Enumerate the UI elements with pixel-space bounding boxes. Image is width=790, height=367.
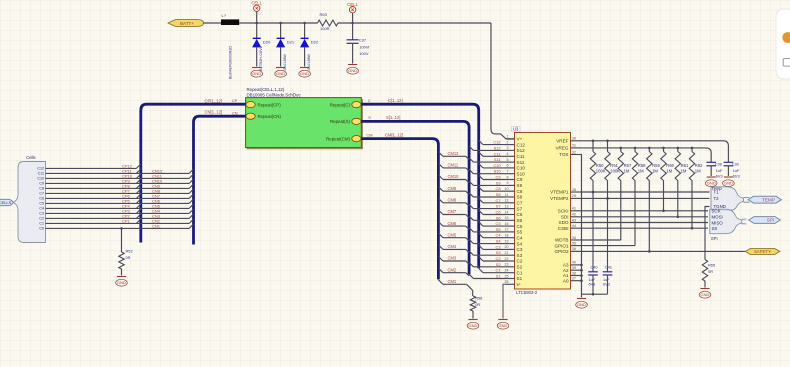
wire net CM7 <box>443 214 466 216</box>
wire net C1 to pin <box>483 272 506 274</box>
svg-text:Repeat(C): Repeat(C) <box>330 102 351 107</box>
bus S[1..12] horizontal+vertical <box>361 121 469 274</box>
svg-text:Repeat(CELL,1,12): Repeat(CELL,1,12) <box>247 87 285 92</box>
junction R50 bottom <box>592 191 595 194</box>
bus entry C6 on C bus <box>479 210 483 214</box>
wire net C6 to pin <box>483 214 506 216</box>
svg-text:6V3: 6V3 <box>733 175 740 179</box>
wire cell row C3 <box>46 212 190 214</box>
wire cell row C12 <box>46 167 137 169</box>
bus entry CM2 on S bus <box>466 273 469 276</box>
pin 32 (TOS) of U3 <box>559 150 580 157</box>
wire R63 to corner <box>338 22 491 24</box>
svg-text:S7: S7 <box>517 206 523 211</box>
resistor R63 100R <box>318 12 339 31</box>
wire ground stub <box>581 294 583 297</box>
op-amp U3 LTC6803-2 body <box>512 127 571 295</box>
svg-text:S2: S2 <box>517 265 523 270</box>
svg-text:CN1: CN1 <box>152 223 161 228</box>
svg-text:D21: D21 <box>287 40 295 45</box>
bus entry CP2 <box>136 214 140 218</box>
svg-text:35: 35 <box>572 241 576 245</box>
ground below D20 <box>251 68 263 78</box>
pin 25 (S1) of U3 <box>505 274 523 281</box>
svg-text:21: 21 <box>505 251 509 255</box>
wire net CM4 <box>443 248 466 250</box>
svg-text:C8: C8 <box>496 186 501 191</box>
pin 20 (C3) of U3 <box>505 245 523 252</box>
wire VREF rail <box>581 141 729 163</box>
svg-text:18: 18 <box>505 234 509 238</box>
svg-text:9: 9 <box>507 181 509 185</box>
bus entry CM7 on S bus <box>466 215 469 218</box>
ground below D22 <box>299 68 311 78</box>
svg-text:CP: CP <box>232 98 238 103</box>
bus entry CN10 <box>189 179 193 183</box>
capacitor C37 100nf 100V <box>347 23 370 64</box>
resistor R57 1M <box>618 148 632 240</box>
junction A3 on vertical <box>580 264 583 267</box>
wire cell row C5 <box>46 202 190 204</box>
wire cell row C8 <box>46 187 190 189</box>
wire V- to ground <box>503 284 506 318</box>
wire SDO to MISO <box>581 222 709 224</box>
wire R50 column to C40 <box>592 192 594 272</box>
svg-text:GND: GND <box>707 181 716 186</box>
svg-text:10: 10 <box>505 187 509 191</box>
wire SDI to MOSI <box>581 216 709 218</box>
wire VREG rail <box>581 148 712 162</box>
svg-text:C40: C40 <box>591 266 598 270</box>
wire cell row C2 <box>46 217 190 219</box>
svg-text:C1: C1 <box>517 270 523 275</box>
svg-text:S8: S8 <box>517 195 523 200</box>
junction A2 on vertical <box>580 269 583 272</box>
svg-text:1M: 1M <box>681 169 687 174</box>
svg-text:C11: C11 <box>494 151 501 156</box>
svg-text:38: 38 <box>572 271 576 275</box>
wire cell row C6 <box>46 197 190 199</box>
bus exit CM11 on CM bus <box>438 163 443 168</box>
svg-text:100V: 100V <box>359 51 369 56</box>
pin 16 (C5) of U3 <box>505 222 523 229</box>
junction R60 bottom <box>662 210 665 213</box>
svg-text:R50: R50 <box>596 163 604 168</box>
svg-text:S12: S12 <box>494 145 501 150</box>
svg-text:C5: C5 <box>496 221 501 226</box>
wire cell row C9 <box>46 182 190 184</box>
svg-text:26: 26 <box>505 280 509 284</box>
pin 34 (WDTB) of U3 <box>555 236 581 243</box>
svg-text:GND: GND <box>469 323 478 328</box>
svg-text:30: 30 <box>572 137 576 141</box>
pin 24 (C1) of U3 <box>505 269 523 276</box>
svg-text:CM3: CM3 <box>448 256 457 261</box>
junction VREG/resistor <box>648 147 651 150</box>
svg-text:Repeat(CP): Repeat(CP) <box>258 102 282 107</box>
bus exit CM6 on CM bus <box>438 222 443 227</box>
junction T2/R51 <box>606 197 609 200</box>
svg-text:MOSI: MOSI <box>712 215 723 220</box>
bus exit CM5 on CM bus <box>438 233 443 238</box>
svg-text:C10: C10 <box>37 177 44 181</box>
pin 43 (SDO) of U3 <box>559 218 581 225</box>
svg-text:C4: C4 <box>517 235 523 240</box>
svg-text:R62: R62 <box>695 163 703 168</box>
svg-text:Repeat(CM): Repeat(CM) <box>326 136 350 141</box>
svg-text:S11: S11 <box>517 160 525 165</box>
svg-text:CM1: CM1 <box>448 279 457 284</box>
junction node D21 <box>279 22 282 25</box>
wire BATT+ to L <box>204 22 222 24</box>
svg-text:6V3: 6V3 <box>603 283 610 287</box>
svg-text:CM: CM <box>366 132 372 137</box>
svg-text:C41: C41 <box>605 266 612 270</box>
bus entry S2 on S bus <box>469 263 473 267</box>
svg-text:12: 12 <box>505 199 509 203</box>
pin 13 (S7) of U3 <box>505 204 523 211</box>
bus entry CN6 <box>189 199 193 203</box>
svg-text:1uF: 1uF <box>603 278 610 282</box>
wire net C4 to pin <box>483 237 506 239</box>
svg-text:23: 23 <box>505 263 509 267</box>
svg-text:SPI: SPI <box>711 236 718 241</box>
svg-text:S10: S10 <box>494 169 502 174</box>
svg-text:S2: S2 <box>496 262 501 267</box>
bus entry C9 on C bus <box>479 175 483 179</box>
bus entry CP4 <box>136 204 140 208</box>
svg-text:MISO: MISO <box>712 220 724 225</box>
svg-text:SDI: SDI <box>561 215 569 220</box>
svg-text:CELL: CELL <box>347 2 358 7</box>
svg-text:Repeat(CN): Repeat(CN) <box>258 114 282 119</box>
bus entry S11 on S bus <box>469 158 473 162</box>
svg-text:A3: A3 <box>563 263 569 268</box>
bus CM[1..12] horizontal+vertical <box>361 139 438 280</box>
bus entry CN4 <box>189 209 193 213</box>
svg-text:C11: C11 <box>517 154 526 159</box>
svg-text:C7: C7 <box>496 198 501 203</box>
bus exit CM8 on CM bus <box>438 198 443 203</box>
svg-text:WDTB: WDTB <box>555 238 569 243</box>
wire net S4 to pin <box>473 243 505 245</box>
wire net C7 to pin <box>483 202 506 204</box>
bus entry CM9 on S bus <box>466 191 469 194</box>
svg-text:17: 17 <box>505 228 509 232</box>
diode D20 BZT52H-C6V2 <box>252 23 271 71</box>
svg-text:C10: C10 <box>493 163 501 168</box>
svg-text:100R: 100R <box>320 26 330 31</box>
bus entry C4 on C bus <box>479 233 483 237</box>
svg-text:C3: C3 <box>496 244 501 249</box>
junction node CELL2/C37 <box>351 22 354 25</box>
svg-text:CM10: CM10 <box>448 174 460 179</box>
pin 12 (C7) of U3 <box>505 199 523 206</box>
resistor R52 0R <box>119 228 133 275</box>
svg-text:1M: 1M <box>695 169 701 174</box>
svg-text:S6: S6 <box>517 218 523 223</box>
wire net S8 to pin <box>473 196 505 198</box>
wire V+ feed from rail to U3 pin 1 <box>491 23 515 139</box>
svg-text:U3: U3 <box>513 127 519 132</box>
junction VREG/resistor <box>634 147 637 150</box>
bus entry CM12 on S bus <box>466 156 469 159</box>
wire net C9 to pin <box>483 179 506 181</box>
wire GPIO2 to SAFETY <box>581 250 746 252</box>
junction VREG/resistor <box>677 147 680 150</box>
svg-text:S8: S8 <box>496 192 501 197</box>
svg-text:VTEMP1: VTEMP1 <box>550 190 569 195</box>
svg-text:C2: C2 <box>496 256 501 261</box>
wire net CM1 <box>438 280 472 296</box>
bus entry S12 on S bus <box>469 146 473 150</box>
pin 40 (A3) of U3 <box>563 261 581 268</box>
junction R59 bottom <box>648 250 651 253</box>
svg-text:100K: 100K <box>596 169 606 174</box>
svg-text:C6: C6 <box>496 210 501 215</box>
svg-text:C9: C9 <box>39 182 44 186</box>
svg-text:S9: S9 <box>517 183 523 188</box>
svg-text:5: 5 <box>507 158 509 162</box>
wire net C3 to pin <box>483 248 506 250</box>
svg-text:CM9: CM9 <box>448 186 457 191</box>
pin 2 (C12) of U3 <box>506 140 526 147</box>
svg-text:CN: CN <box>232 110 238 115</box>
svg-text:CM8: CM8 <box>448 198 457 203</box>
svg-text:34: 34 <box>572 236 576 240</box>
junction node D22 <box>303 22 306 25</box>
bus entry CN1 <box>189 224 193 228</box>
wire VTEMP1 to T1 <box>581 191 710 193</box>
bus entry CP8 <box>136 184 140 188</box>
svg-text:CSBI: CSBI <box>558 226 569 231</box>
svg-text:C4: C4 <box>496 233 502 238</box>
svg-text:C8: C8 <box>517 189 523 194</box>
wire net CM11 <box>443 167 466 169</box>
svg-text:GND: GND <box>348 68 357 73</box>
svg-text:S4: S4 <box>517 241 523 246</box>
junction VREG/resistor <box>620 147 623 150</box>
bus CN[1..12] horizontal+vertical <box>194 116 246 244</box>
pin 9 (S9) of U3 <box>506 181 523 188</box>
svg-text:13: 13 <box>505 204 509 208</box>
svg-text:S7: S7 <box>496 204 501 209</box>
svg-text:6V3: 6V3 <box>589 283 596 287</box>
svg-text:C12: C12 <box>37 167 44 171</box>
svg-text:CP[1..12]: CP[1..12] <box>205 98 222 103</box>
svg-text:22: 22 <box>505 257 509 261</box>
svg-text:SS: SS <box>712 226 718 231</box>
bus entry CN8 <box>189 189 193 193</box>
svg-text:24: 24 <box>505 269 509 273</box>
svg-text:1M: 1M <box>652 169 658 174</box>
svg-text:S4: S4 <box>496 239 502 244</box>
pin 5 (S11) of U3 <box>506 158 525 165</box>
bus entry C11 on C bus <box>479 152 483 156</box>
harness connector SPI <box>710 208 747 241</box>
svg-text:28: 28 <box>572 188 576 192</box>
wire bottom ground rail <box>582 293 608 295</box>
svg-text:C5: C5 <box>39 202 44 206</box>
wire TOS/A-pins vertical to ground rail <box>581 155 582 295</box>
junction A0 on vertical <box>580 279 583 282</box>
svg-text:0R: 0R <box>475 302 480 307</box>
bus entry CM6 on S bus <box>466 226 469 229</box>
wire net CM9 <box>443 190 466 192</box>
junction A1 on vertical <box>580 274 583 277</box>
bus CP[1..12] horizontal+vertical <box>141 104 246 242</box>
svg-text:S12: S12 <box>517 148 526 153</box>
bus entry CM4 on S bus <box>466 249 469 252</box>
svg-text:GND: GND <box>724 181 733 186</box>
svg-text:S[1..12]: S[1..12] <box>386 115 400 120</box>
svg-text:C11: C11 <box>38 172 44 176</box>
svg-text:2: 2 <box>507 140 509 144</box>
junction VREG/resistor <box>662 147 665 150</box>
svg-text:C2: C2 <box>517 259 523 264</box>
svg-text:S11: S11 <box>494 157 501 162</box>
svg-text:S3: S3 <box>517 253 523 258</box>
power symbol CELL (left) <box>251 1 262 23</box>
bus entry CP1 <box>136 219 140 223</box>
pin 21 (S3) of U3 <box>505 251 523 258</box>
bus entry S9 on S bus <box>469 181 473 185</box>
bus entry CM11 on S bus <box>466 168 469 171</box>
junction VREF/R51 <box>606 140 609 143</box>
harness connector Temp <box>711 186 750 210</box>
pin 35 (GPIO1) of U3 <box>554 241 580 248</box>
wire net S11 to pin <box>473 161 505 163</box>
svg-text:GPIO1: GPIO1 <box>554 243 568 248</box>
svg-text:20: 20 <box>505 245 509 249</box>
svg-text:C2: C2 <box>39 217 44 221</box>
svg-text:V-: V- <box>517 282 522 287</box>
resistor R50 100K <box>590 141 605 192</box>
svg-text:D22: D22 <box>311 40 319 45</box>
svg-text:1M: 1M <box>666 169 672 174</box>
svg-text:CM12: CM12 <box>448 151 460 156</box>
svg-text:8: 8 <box>507 175 509 179</box>
pin 31 (VREG) of U3 <box>555 144 580 151</box>
sheet entry Repeat(CM) <box>326 136 361 142</box>
svg-text:31: 31 <box>572 144 576 148</box>
bus entry CP7 <box>136 189 140 193</box>
svg-text:SDO: SDO <box>559 220 569 225</box>
svg-text:S6: S6 <box>496 215 501 220</box>
wire net CM2 <box>443 272 466 274</box>
svg-text:R59: R59 <box>652 163 660 168</box>
bus entry C8 on C bus <box>479 187 483 191</box>
bus exit CM2 on CM bus <box>438 268 443 273</box>
svg-text:T1: T1 <box>714 190 720 195</box>
svg-text:GPIO2: GPIO2 <box>554 249 568 254</box>
bus entry CM8 on S bus <box>466 203 469 206</box>
diode D21 1N4148W <box>276 23 295 71</box>
pin 37 (A0) of U3 <box>563 277 581 284</box>
pin 19 (S4) of U3 <box>505 239 523 246</box>
svg-text:1M: 1M <box>624 169 630 174</box>
svg-text:D20: D20 <box>263 40 271 45</box>
port SAFETY <box>745 249 780 255</box>
ui overlay panel <box>776 9 790 79</box>
harness port TEMP <box>748 196 781 203</box>
resistor R58 1M <box>632 148 646 246</box>
wire net C2 to pin <box>483 260 506 262</box>
svg-text:CELL: CELL <box>251 1 262 6</box>
svg-text:1M: 1M <box>638 169 644 174</box>
pin 26 (V-) of U3 <box>505 280 522 287</box>
junction node R52 tap <box>120 227 123 230</box>
diode D22 1N4148W <box>300 23 319 71</box>
wire cell row C10 <box>46 177 190 179</box>
resistor R61 1M <box>675 148 689 217</box>
bus entry CP6 <box>136 194 140 198</box>
bus exit CM9 on CM bus <box>438 187 443 192</box>
svg-text:GND: GND <box>276 71 285 76</box>
ground below C37 <box>347 65 359 75</box>
capacitor C38 1uF 6V3 <box>706 162 723 178</box>
wire CSBI to SS <box>581 227 709 229</box>
svg-text:TEMP: TEMP <box>762 197 775 202</box>
pin 1 (V+) of U3 <box>506 135 523 142</box>
bus entry CM10 on S bus <box>466 180 469 183</box>
svg-text:R52: R52 <box>126 249 133 254</box>
svg-text:C4: C4 <box>39 207 44 211</box>
wire cell row C7 <box>46 192 190 194</box>
bus entry C1 on C bus <box>479 268 483 272</box>
pin 15 (S6) of U3 <box>505 216 523 223</box>
wire cell row C1 <box>46 222 190 224</box>
junction VREF/R50 <box>592 140 595 143</box>
svg-text:42: 42 <box>572 213 576 217</box>
svg-text:SAFETY: SAFETY <box>754 249 771 254</box>
svg-text:VTEMP2: VTEMP2 <box>550 196 569 201</box>
svg-text:C3: C3 <box>39 212 44 216</box>
svg-text:A0: A0 <box>563 278 569 283</box>
junction T1/R50 <box>592 191 595 194</box>
wire net C10 to pin <box>483 167 506 169</box>
wire R51 column to C41 <box>607 198 609 271</box>
bus entry S1 on S bus <box>469 274 473 278</box>
svg-text:SPI: SPI <box>767 218 774 223</box>
pin 18 (C4) of U3 <box>505 234 523 241</box>
svg-text:C7: C7 <box>517 201 523 206</box>
pin 17 (S5) of U3 <box>505 228 523 235</box>
resistor R65 0R <box>702 260 715 288</box>
bus entry CN11 <box>189 174 193 178</box>
svg-text:S3: S3 <box>496 250 501 255</box>
svg-text:T2: T2 <box>714 196 720 201</box>
wire net CM10 <box>443 179 466 181</box>
svg-text:CN[1..12]: CN[1..12] <box>205 109 223 114</box>
svg-text:CP1: CP1 <box>122 218 131 223</box>
wire net C12 to pin <box>483 144 506 146</box>
svg-text:C6: C6 <box>39 197 44 201</box>
svg-text:Repeat(S): Repeat(S) <box>330 119 351 124</box>
wire net S5 to pin <box>473 231 505 233</box>
svg-text:41: 41 <box>572 207 576 211</box>
wire VTEMP2 to T2 <box>581 197 710 199</box>
bus entry C5 on C bus <box>479 222 483 226</box>
bus entry CP9 <box>136 179 140 183</box>
svg-text:C39: C39 <box>732 163 739 167</box>
pin 41 (SCKI) of U3 <box>558 207 581 214</box>
wire SCKI to SCK <box>581 210 709 212</box>
pin 11 (S8) of U3 <box>505 193 523 200</box>
wire net S1 to pin <box>473 278 505 280</box>
svg-text:R58: R58 <box>638 163 646 168</box>
svg-text:V+: V+ <box>517 137 523 142</box>
